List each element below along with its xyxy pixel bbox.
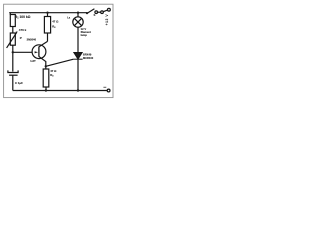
svg-text:R1 100 kΩ: R1 100 kΩ <box>15 15 31 20</box>
svg-text:MCR100: MCR100 <box>83 56 94 60</box>
svg-text:BRX49: BRX49 <box>83 52 92 56</box>
svg-text:lamp: lamp <box>81 33 88 37</box>
svg-text:C 1μF: C 1μF <box>15 81 23 85</box>
svg-text:P: P <box>20 36 22 40</box>
svg-text:47 Ω: 47 Ω <box>52 20 59 24</box>
svg-text:470 k: 470 k <box>19 28 27 32</box>
svg-text:UJT: UJT <box>30 59 36 63</box>
svg-text:+12 V: +12 V <box>105 14 109 26</box>
svg-text:2N2646: 2N2646 <box>27 38 37 42</box>
svg-text:S: S <box>94 13 96 17</box>
